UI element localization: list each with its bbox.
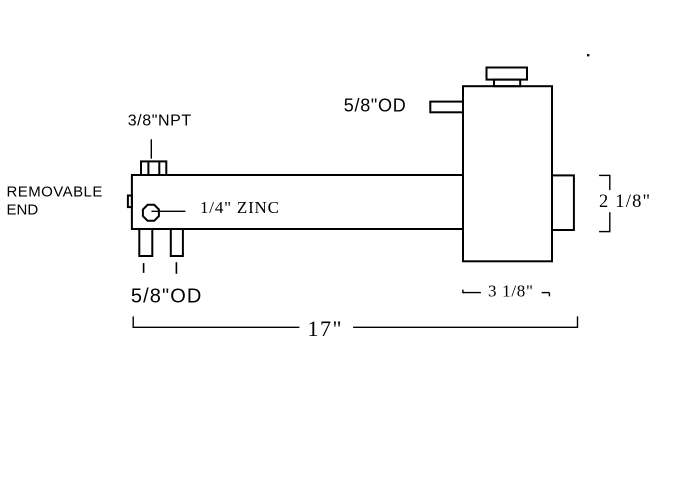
bottom tube 2 [171, 229, 183, 256]
svg-text:REMOVABLE: REMOVABLE [7, 183, 103, 200]
zinc anode octagon [143, 205, 159, 221]
17in dimension [133, 316, 577, 328]
zinc leader line [152, 210, 186, 212]
leader dash 1 [143, 263, 145, 273]
2 1/8 dimension bracket [599, 175, 610, 231]
3 1/8 dimension bracket [463, 290, 550, 297]
top cap flange [487, 68, 528, 80]
top cap neck [494, 80, 520, 87]
svg-text:5/8"OD: 5/8"OD [344, 96, 407, 116]
bottom tube 1 [139, 229, 152, 256]
leader dash 2 [175, 262, 177, 274]
tank body [463, 86, 552, 261]
svg-text:2 1/8": 2 1/8" [599, 192, 651, 212]
svg-text:17": 17" [308, 316, 343, 341]
svg-text:END: END [7, 202, 39, 219]
3/8 NPT fitting on tube [141, 161, 166, 175]
removable end notch [128, 196, 132, 208]
NPT leader line [150, 139, 152, 158]
svg-text:3/8"NPT: 3/8"NPT [128, 112, 192, 129]
svg-text:5/8"OD: 5/8"OD [131, 286, 203, 308]
svg-text:3 1/8": 3 1/8" [488, 282, 534, 301]
right protrusion [552, 175, 574, 230]
main tube body [132, 175, 463, 229]
left 5/8 OD fitting on tank [430, 102, 463, 113]
stray ink speck [587, 54, 589, 56]
svg-text:1/4" ZINC: 1/4" ZINC [200, 198, 280, 217]
